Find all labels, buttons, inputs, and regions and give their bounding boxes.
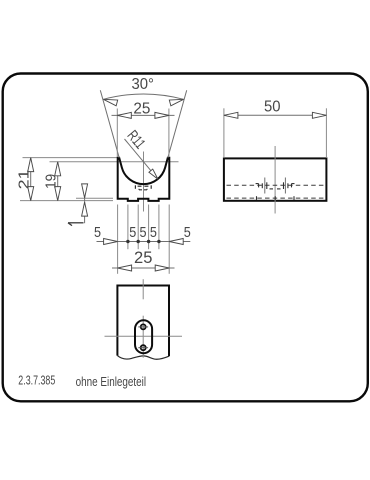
svg-text:25: 25 bbox=[133, 100, 150, 117]
border frame bbox=[3, 74, 368, 402]
hidden mid line dashed bbox=[227, 184, 325, 186]
hole centerline right bbox=[284, 178, 286, 194]
svg-text:2.3.7.385: 2.3.7.385 bbox=[18, 374, 55, 388]
svg-text:ohne Einlegeteil: ohne Einlegeteil bbox=[76, 375, 147, 389]
dim 19: dimension line bbox=[57, 162, 59, 201]
svg-text:19: 19 bbox=[42, 174, 59, 189]
svg-text:5: 5 bbox=[150, 224, 157, 241]
dim 30 degrees: left arrow bbox=[103, 96, 118, 105]
hole top bbox=[141, 324, 146, 329]
dim 5 left arrow (pointing right at x=117.6) bbox=[104, 239, 118, 245]
dim 30 degrees: right arrow bbox=[169, 96, 184, 105]
dim 25 top: dimension line bbox=[112, 114, 175, 116]
slot centerline vertical bbox=[142, 316, 144, 358]
svg-text:5: 5 bbox=[129, 224, 136, 241]
side view vertical centerline bbox=[274, 146, 276, 214]
bottom view outline (sides + top) bbox=[117, 286, 169, 357]
dim 30 degrees: left slant extension bbox=[100, 90, 119, 157]
svg-text:21: 21 bbox=[16, 169, 33, 189]
dim 25 bottom: dimension line bbox=[112, 267, 175, 269]
dim 30 degrees: right slant extension bbox=[168, 90, 187, 157]
svg-text:5: 5 bbox=[140, 224, 147, 241]
hidden slot marks under arc bbox=[135, 185, 151, 190]
dim 5x5: dimension line bbox=[97, 241, 191, 243]
dim 25 top: arrows bbox=[117, 112, 131, 118]
extension line tab bottom y=200.6 bbox=[20, 200, 113, 202]
hole centerline left bbox=[264, 178, 266, 194]
dim 30 degrees: arc bbox=[103, 94, 183, 99]
junction dots bbox=[126, 240, 129, 243]
dim 21: dimension line bbox=[30, 158, 32, 201]
extension line main bottom y=198.3 bbox=[76, 197, 113, 199]
dim 5 right arrow (pointing left at x=169.2) bbox=[169, 239, 183, 245]
part outline front view bbox=[118, 158, 170, 201]
dim 1: label (rotated one) bbox=[68, 223, 84, 226]
svg-text:25: 25 bbox=[134, 248, 152, 267]
extension line part top y=157.6 bbox=[23, 157, 118, 159]
hidden bottom line dashed bbox=[227, 197, 325, 199]
svg-text:5: 5 bbox=[184, 224, 191, 241]
dim R11: leader line bbox=[125, 139, 158, 179]
bottom 5-dims: extension lines bbox=[117, 205, 119, 274]
centerline front view bbox=[143, 152, 145, 212]
svg-text:5: 5 bbox=[94, 224, 101, 241]
dim 50: dimension line bbox=[224, 114, 327, 116]
break line wavy bbox=[117, 356, 169, 360]
side view rectangle bbox=[224, 158, 327, 200]
hole bottom bbox=[141, 345, 146, 350]
svg-text:30°: 30° bbox=[131, 76, 154, 93]
dim R11: arrowhead on arc bbox=[149, 169, 160, 181]
extension line arc-center plane y=161.8 bbox=[50, 161, 179, 163]
dim 25 top: extension lines bbox=[116, 109, 118, 157]
hidden slot/hole edge marks bbox=[256, 182, 295, 200]
dim 1: dimension line bbox=[84, 186, 86, 223]
bottom view top centerline bbox=[142, 279, 144, 299]
svg-text:50: 50 bbox=[264, 99, 281, 116]
dim 50: extension lines bbox=[223, 108, 225, 158]
slot centerline horizontal bbox=[105, 335, 183, 337]
slot obround bbox=[135, 320, 152, 353]
